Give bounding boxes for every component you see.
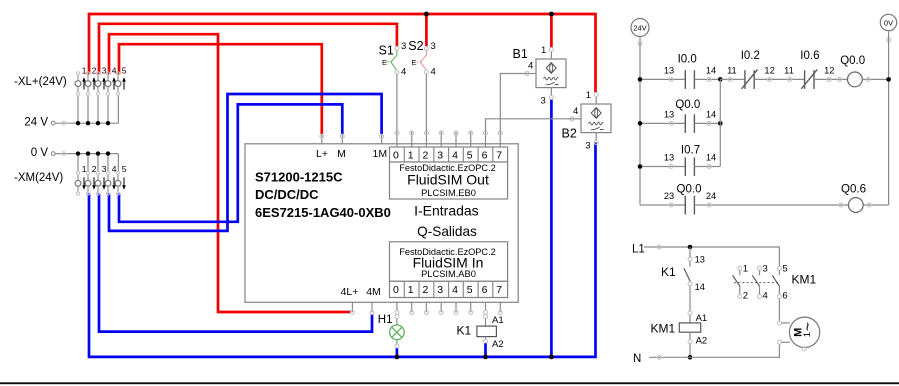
svg-text:4: 4 <box>452 150 458 162</box>
svg-text:2: 2 <box>422 284 428 296</box>
wire red: -XL+ terminal 4 to PLC pin 4L+ <box>109 34 351 312</box>
svg-text:4: 4 <box>573 106 578 117</box>
wire blue relay K1 to bottom bus <box>484 343 487 357</box>
wire 0V bus line <box>55 153 118 155</box>
svg-text:0V: 0V <box>884 18 893 27</box>
svg-text:4: 4 <box>528 61 533 72</box>
svg-text:A1: A1 <box>492 315 504 326</box>
pin Q0 of output connector <box>395 302 399 318</box>
terminal -XM 1 <box>75 164 87 195</box>
wire blue: -XM terminal 5 to PLC pin M <box>119 104 342 221</box>
svg-text:Q0.0: Q0.0 <box>675 99 700 111</box>
svg-text:12: 12 <box>764 66 774 76</box>
svg-text:I0.0: I0.0 <box>678 54 697 66</box>
svg-text:FluidSIM In: FluidSIM In <box>413 254 484 270</box>
terminal -XL+ 5 <box>115 66 127 96</box>
svg-text:~: ~ <box>800 322 817 331</box>
wire -XM terminal 4 riser from 0V bus <box>107 154 109 172</box>
svg-text:5: 5 <box>467 284 473 296</box>
svg-text:0: 0 <box>393 284 399 296</box>
wire branch vertical rung1-rung3 <box>719 79 721 166</box>
wire red: -XL+ terminal 5 to PLC pin L+ <box>119 44 322 134</box>
wire -XL+ terminal 4 drop to 24V bus <box>107 95 109 123</box>
svg-text:2: 2 <box>743 290 748 301</box>
pin I1 of input connector <box>410 131 414 147</box>
pin 24V bus second open circle <box>62 121 66 125</box>
node dot on 0V bus t4 <box>106 151 110 155</box>
svg-text:-XL+(24V): -XL+(24V) <box>14 76 67 88</box>
svg-text:13: 13 <box>695 254 705 264</box>
wire blue: -XM terminal 4 to PLC pin 1M <box>109 94 382 231</box>
wire KM1 coil to N rail <box>689 344 691 358</box>
wire B1 pin 4 to input I7 <box>500 74 529 132</box>
svg-text:11: 11 <box>727 66 737 76</box>
svg-text:A2: A2 <box>696 335 708 346</box>
svg-text:PLCSIM.EB0: PLCSIM.EB0 <box>421 188 476 198</box>
pin I0 of input connector <box>395 131 399 147</box>
node junction bottom bus at H1 <box>395 355 400 360</box>
svg-text:B2: B2 <box>562 127 577 141</box>
pin I6 of input connector <box>484 131 488 147</box>
svg-text:L1: L1 <box>632 243 645 255</box>
svg-text:3: 3 <box>401 41 406 52</box>
svg-text:3: 3 <box>437 150 443 162</box>
svg-text:3: 3 <box>585 141 590 152</box>
pin Q1 of output connector <box>410 302 414 314</box>
node junction on red bus at B1 branch <box>549 12 554 17</box>
svg-text:1: 1 <box>408 284 414 296</box>
pin 0V bus second open circle <box>62 152 66 156</box>
contact I0.0 NO (rung 1) <box>640 66 720 89</box>
wire red: branch to B1 pin 1 <box>550 14 553 48</box>
node dot on 0V bus t3 <box>96 151 100 155</box>
svg-text:-XM(24V): -XM(24V) <box>14 172 63 184</box>
svg-text:1: 1 <box>586 90 591 101</box>
wire -XL+ terminal 5 corner to 24V bus <box>117 95 119 123</box>
svg-text:E: E <box>412 58 417 67</box>
pin L+ of PLC <box>316 134 328 160</box>
svg-text:B1: B1 <box>513 47 528 61</box>
pin I5 of input connector <box>469 131 473 147</box>
wire ladder left rail <box>639 43 641 205</box>
contact Q0.0 NO (rung 4) <box>640 191 848 214</box>
svg-text:I0.2: I0.2 <box>741 50 760 62</box>
svg-text:13: 13 <box>664 66 674 76</box>
node dot on 0V bus t1 <box>76 151 80 155</box>
svg-text:PLCSIM.AB0: PLCSIM.AB0 <box>421 269 476 279</box>
terminal -XL+ 3 <box>95 66 107 96</box>
coil Q0.6 (rung 4) <box>839 198 889 213</box>
pin Q3 of output connector <box>439 302 443 314</box>
terminal -XL+ 4 <box>105 66 117 96</box>
svg-text:FluidSIM Out: FluidSIM Out <box>407 172 489 188</box>
svg-text:N: N <box>633 353 641 365</box>
terminal -XL+ 2 <box>85 66 97 96</box>
wire ladder right rail <box>888 31 890 205</box>
svg-text:L+: L+ <box>316 148 328 160</box>
node junction N rail at KM1 <box>688 355 693 360</box>
wire from output Q6 to relay K1 <box>485 319 487 327</box>
svg-text:5: 5 <box>782 264 787 275</box>
wire -XL+ terminal 1 drop to 24V bus <box>77 95 79 123</box>
switch S2 (NO pushbutton, red) <box>412 46 429 74</box>
contact KM1 pole 3-4 <box>752 264 767 302</box>
svg-text:H1: H1 <box>378 314 393 326</box>
contact Q0.0 NO (rung 2) <box>640 110 720 133</box>
wire 24V bus line <box>55 122 118 124</box>
contact I0.7 NO (rung 3) <box>640 153 720 176</box>
svg-text:13: 13 <box>664 110 674 120</box>
svg-text:14: 14 <box>706 110 716 120</box>
svg-text:4: 4 <box>763 290 768 301</box>
svg-text:1: 1 <box>541 45 546 56</box>
relay coil K1 <box>477 326 497 343</box>
svg-text:1: 1 <box>408 150 414 162</box>
pin M of PLC <box>337 134 346 160</box>
wire red: -XL+ terminal 2 to top bus feeding S2/B1/B2 <box>89 14 596 92</box>
svg-text:1: 1 <box>743 264 748 275</box>
pin Q5 of output connector <box>469 302 473 314</box>
svg-text:14: 14 <box>706 153 716 163</box>
svg-text:3: 3 <box>541 96 546 107</box>
contact I0.2 NC (rung 1) <box>720 66 804 89</box>
wire red: -XL+ terminal 3 to S1 pin 3 <box>99 24 397 75</box>
svg-text:I0.6: I0.6 <box>800 50 819 62</box>
pin I4 of input connector <box>454 131 458 147</box>
wire blue: -XM terminal 2 to bottom 0V bus to B2 pin 3 <box>89 142 596 357</box>
node junction on red bus at S2 branch <box>424 12 429 17</box>
svg-text:Q-Salidas: Q-Salidas <box>417 224 477 239</box>
pin Q4 of output connector <box>454 302 458 314</box>
svg-text:3: 3 <box>437 284 443 296</box>
wire -XL+ terminal 2 drop to 24V bus <box>87 95 89 123</box>
svg-text:DC/DC/DC: DC/DC/DC <box>255 187 319 202</box>
terminal -XL+ 1 <box>75 66 87 96</box>
svg-text:24 V: 24 V <box>24 117 48 129</box>
svg-text:4: 4 <box>431 67 436 78</box>
svg-text:Q0.0: Q0.0 <box>840 55 865 67</box>
svg-text:S2: S2 <box>408 39 423 53</box>
pin 24V bus left open circle <box>51 121 55 125</box>
PLC S7-1200 body <box>245 144 518 302</box>
node rung1 branch <box>718 77 723 82</box>
svg-text:5: 5 <box>122 164 127 174</box>
pin Q6 of output connector <box>484 302 488 318</box>
contact KM1 pole 1-2 <box>733 264 748 302</box>
node rung2 branch <box>718 121 723 126</box>
output connector FluidSIM In description box <box>390 242 508 281</box>
svg-text:4: 4 <box>401 67 406 78</box>
node dot on 24V bus t2 <box>86 121 90 125</box>
svg-text:E: E <box>382 58 387 67</box>
pin L1 rail open circle <box>657 245 661 249</box>
svg-text:6: 6 <box>782 290 787 301</box>
node rung3 left rail <box>638 164 643 169</box>
svg-text:14: 14 <box>706 66 716 76</box>
svg-text:A2: A2 <box>492 339 504 350</box>
wire KM1 pole 5-6 to motor <box>778 299 780 321</box>
svg-text:5: 5 <box>467 150 473 162</box>
pin I7 of input connector <box>498 131 502 147</box>
svg-text:12: 12 <box>824 66 834 76</box>
bottom border line <box>0 382 899 384</box>
terminal -XM 5 <box>115 164 127 195</box>
pin Q2 of output connector <box>424 302 428 314</box>
coil Q0.0 (rung 1) <box>838 72 889 87</box>
svg-text:6: 6 <box>482 284 488 296</box>
svg-text:6: 6 <box>482 150 488 162</box>
svg-text:KM1: KM1 <box>792 273 817 287</box>
wire S2 pin 4 to input I2 <box>425 74 427 131</box>
svg-text:0 V: 0 V <box>31 147 49 159</box>
wire S1 pin 4 to input I0 <box>396 74 398 131</box>
svg-text:K1: K1 <box>457 323 472 337</box>
terminal -XM 3 <box>95 164 107 195</box>
wire red: branch to S2 pin 3 <box>425 14 428 47</box>
contact K1 NO (relay contact) <box>684 247 705 292</box>
svg-text:4L+: 4L+ <box>341 286 359 298</box>
node dot on 24V bus t3 <box>96 121 100 125</box>
pin 0V bus left open circle <box>51 152 55 156</box>
svg-text:11: 11 <box>784 66 794 76</box>
contact KM1 pole 5-6 <box>772 264 787 302</box>
linkage dashed line of KM1 poles <box>734 282 778 284</box>
svg-text:4: 4 <box>452 284 458 296</box>
wire blue lamp H1 to bottom bus <box>396 348 399 357</box>
output connector FluidSIM In cell row <box>390 281 508 297</box>
node junction bottom bus at K1 <box>483 355 488 360</box>
svg-text:7: 7 <box>496 284 502 296</box>
svg-text:2: 2 <box>422 150 428 162</box>
wire B2 pin 4 to input I6 <box>486 119 575 131</box>
terminal -XM 2 <box>85 164 97 195</box>
node dot on 24V bus t1 <box>76 121 80 125</box>
node dot on 0V bus t2 <box>86 151 90 155</box>
wire from output Q0 to lamp H1 <box>396 319 398 326</box>
pin I2 of input connector <box>424 131 428 147</box>
contact I0.6 NC (rung 1) <box>784 66 847 89</box>
power source 0V (ladder right rail top) <box>880 14 896 42</box>
wire -XM terminal 2 riser from 0V bus <box>87 154 89 172</box>
node junction bottom bus at B1 wire <box>549 355 554 360</box>
node rung1 left rail <box>638 77 643 82</box>
pin 4L+ of PLC <box>341 286 359 315</box>
power source 24V (ladder left rail top) <box>631 19 649 46</box>
svg-text:14: 14 <box>695 282 705 292</box>
wire -XM terminal 1 riser from 0V bus <box>77 154 79 172</box>
pin 4M of PLC <box>366 286 381 315</box>
svg-text:I0.7: I0.7 <box>681 145 700 157</box>
wire -XL+ terminal 3 drop to 24V bus <box>97 95 99 123</box>
switch S1 (NO pushbutton, green) <box>382 46 399 74</box>
input connector FluidSIM Out cell row <box>390 147 508 162</box>
svg-text:A1: A1 <box>696 313 708 324</box>
svg-text:M: M <box>337 148 346 160</box>
svg-text:5: 5 <box>122 66 127 76</box>
svg-text:I-Entradas: I-Entradas <box>414 203 479 219</box>
svg-text:S71200-1215C: S71200-1215C <box>255 169 343 184</box>
svg-text:Q0.6: Q0.6 <box>841 184 866 196</box>
pin N rail open circle <box>657 355 661 359</box>
svg-text:Q0.0: Q0.0 <box>677 184 702 196</box>
motor M1 (AC motor) <box>777 317 819 351</box>
svg-text:0: 0 <box>393 150 399 162</box>
relay coil KM1 <box>679 311 700 343</box>
pin Q7 of output connector <box>498 302 502 314</box>
node rung1 right rail <box>886 77 891 82</box>
wire K1 pin 14 to KM1 coil <box>689 286 691 311</box>
lamp H1 <box>390 325 405 348</box>
wire N rail to motor <box>649 344 779 357</box>
node dot on 24V bus t4 <box>106 121 110 125</box>
svg-text:7: 7 <box>496 150 502 162</box>
svg-text:S1: S1 <box>379 44 394 58</box>
input connector FluidSIM Out description box <box>390 162 508 199</box>
svg-text:24: 24 <box>706 191 716 201</box>
svg-text:1: 1 <box>802 332 813 337</box>
svg-text:3: 3 <box>763 264 768 275</box>
node rung2 left rail <box>638 121 643 126</box>
sensor B2 (proximity switch) <box>570 93 611 145</box>
svg-text:6ES7215-1AG40-0XB0: 6ES7215-1AG40-0XB0 <box>255 205 391 220</box>
wire L1 rail to KM1 pin 5 <box>644 247 779 266</box>
node junction L1 rail at K1 <box>688 245 693 250</box>
svg-text:24V: 24V <box>633 23 646 32</box>
wire blue: -XM terminal 3 to PLC pin 4M <box>99 193 372 331</box>
pin 1M of PLC <box>373 134 388 160</box>
svg-text:1M: 1M <box>373 148 388 160</box>
wire blue: B1 pin 3 down to bottom 0V bus <box>550 99 553 357</box>
svg-text:K1: K1 <box>661 265 676 279</box>
svg-text:4M: 4M <box>366 286 381 298</box>
sensor B1 (proximity switch) <box>525 48 566 100</box>
wire -XM terminal 5 corner from 0V bus <box>117 154 119 172</box>
terminal -XM 4 <box>105 164 117 195</box>
svg-text:13: 13 <box>664 153 674 163</box>
svg-text:KM1: KM1 <box>651 321 676 335</box>
wire -XM terminal 3 riser from 0V bus <box>97 154 99 172</box>
svg-text:23: 23 <box>664 191 674 201</box>
pin I3 of input connector <box>439 131 443 147</box>
svg-text:3: 3 <box>431 41 436 52</box>
